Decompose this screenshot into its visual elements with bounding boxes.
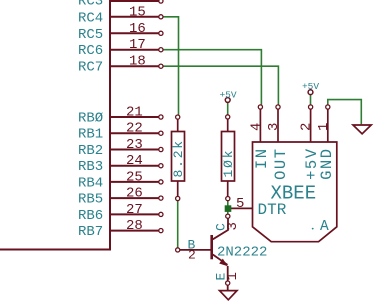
svg-text:15: 15 xyxy=(129,4,146,20)
svg-text:26: 26 xyxy=(126,186,143,202)
svg-text:C: C xyxy=(214,223,229,231)
svg-text:18: 18 xyxy=(129,54,146,70)
svg-text:22: 22 xyxy=(126,121,143,137)
svg-text:RB2: RB2 xyxy=(78,143,103,159)
svg-text:GND: GND xyxy=(318,148,336,180)
svg-text:RC5: RC5 xyxy=(78,27,103,43)
svg-text:RC4: RC4 xyxy=(78,10,103,26)
svg-text:1Øk: 1Øk xyxy=(221,149,236,178)
svg-text:RC6: RC6 xyxy=(78,43,103,59)
svg-text:2: 2 xyxy=(299,123,315,131)
svg-text:+5V: +5V xyxy=(219,89,236,100)
svg-text:IN: IN xyxy=(253,148,271,170)
svg-text:2: 2 xyxy=(188,248,196,263)
svg-text:17: 17 xyxy=(129,37,146,53)
svg-text:A: A xyxy=(320,219,329,235)
svg-text:25: 25 xyxy=(126,169,143,185)
svg-text:21: 21 xyxy=(126,105,143,121)
svg-text:RB4: RB4 xyxy=(78,175,103,191)
svg-text:27: 27 xyxy=(126,202,143,218)
svg-text:E: E xyxy=(214,273,229,281)
svg-text:RB7: RB7 xyxy=(78,224,103,240)
svg-text:23: 23 xyxy=(126,137,143,153)
svg-text:2N2222: 2N2222 xyxy=(217,244,267,260)
svg-text:1: 1 xyxy=(316,123,332,131)
svg-text:OUT: OUT xyxy=(272,148,290,180)
svg-text:3: 3 xyxy=(266,123,282,131)
svg-text:28: 28 xyxy=(126,218,143,234)
svg-text:+5V: +5V xyxy=(302,81,319,92)
svg-text:24: 24 xyxy=(126,153,143,169)
svg-text:RB1: RB1 xyxy=(78,127,103,143)
svg-text:RC3: RC3 xyxy=(78,0,103,9)
svg-text:16: 16 xyxy=(129,21,146,37)
svg-text:RBØ: RBØ xyxy=(78,111,103,127)
svg-text:5: 5 xyxy=(236,196,244,212)
svg-text:8.2k: 8.2k xyxy=(171,139,186,177)
svg-text:RB3: RB3 xyxy=(78,159,103,175)
svg-text:DTR: DTR xyxy=(258,201,287,219)
svg-text:4: 4 xyxy=(249,123,265,131)
svg-text:RC7: RC7 xyxy=(78,60,103,76)
svg-text:RB6: RB6 xyxy=(78,208,103,224)
svg-text:RB5: RB5 xyxy=(78,192,103,208)
